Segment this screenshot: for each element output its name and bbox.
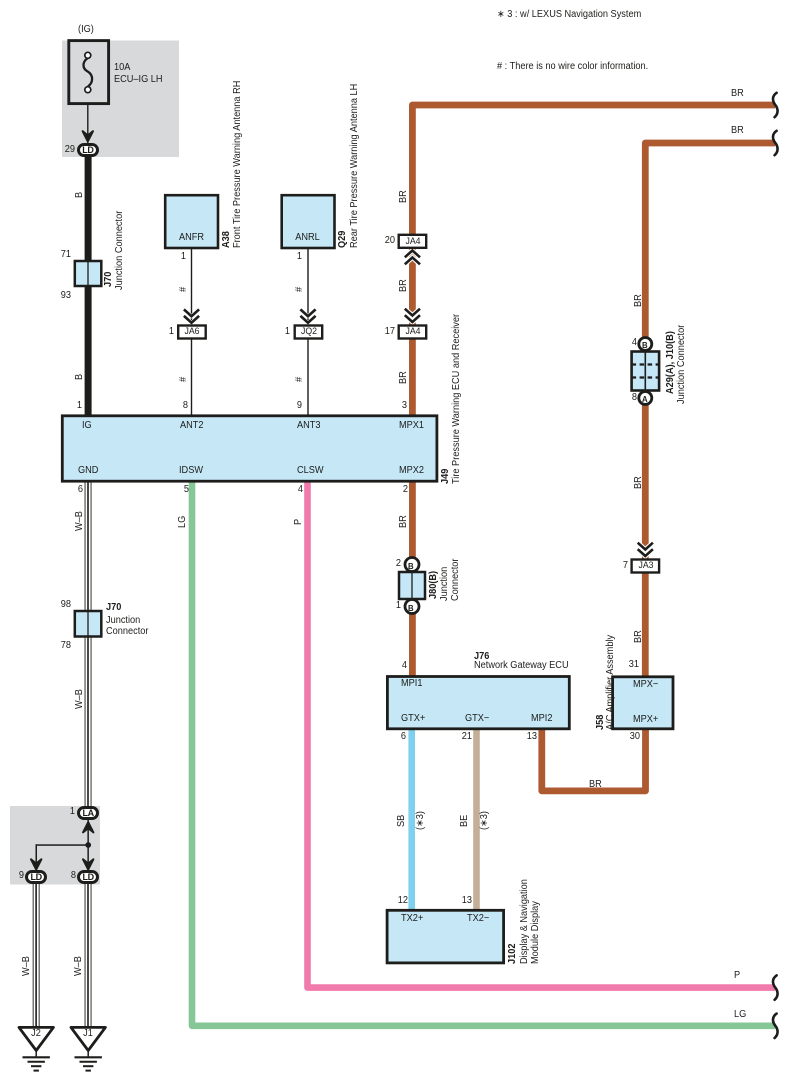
label A/C Amplifier Assembly (rotated) (606, 635, 616, 730)
pin 93 label (43, 291, 71, 301)
pin 1 label J80 bottom (373, 601, 401, 611)
pin 4 label A29 top (609, 338, 637, 348)
label J70 second (106, 603, 121, 613)
pin 2 label MPX2 (380, 485, 408, 495)
wire: BR from J49 MPX2 through J80(B) to J76 MPI1 (409, 480, 416, 676)
label GND (78, 466, 98, 476)
pin 6 label GND (55, 485, 83, 495)
wire: W-B from LD(9) to ground J2 (33, 882, 40, 1026)
break symbol on LG wire (773, 1014, 778, 1038)
node LD pin 9 (25, 870, 47, 884)
label MPI2 (531, 714, 552, 724)
label Connector (rotated) (451, 559, 461, 601)
label (IG) (78, 25, 94, 35)
label A38 (rotated) (222, 231, 232, 248)
label J49 (rotated) (441, 469, 451, 484)
wire label W-B ground left (22, 956, 32, 976)
pin circle B top of J80(B) (405, 558, 419, 572)
pin 9 label (0, 871, 24, 881)
wire label # lower right (295, 377, 305, 382)
wire: branch down to LD (9) (36, 844, 38, 870)
label TX2- (467, 914, 489, 924)
pin 9 label ANT3 (275, 401, 303, 411)
shaded region: ground distribution block (10, 806, 100, 885)
wire: SB from J76 GTX+ to J102 TX2+ (408, 729, 415, 911)
node LD pin 29 (77, 143, 99, 157)
wire: ANFR pin 1 to JA6 to J49 ANT2 (no color info) (191, 248, 192, 416)
connector box JA6 (178, 326, 206, 339)
pin 8 label A29 bottom (609, 393, 637, 403)
note: no wire color info (497, 62, 648, 72)
note: navigation option (497, 10, 641, 20)
label Display & Navigation (rotated) (520, 879, 530, 964)
wire: LG from J49 IDSW to off-page right (192, 481, 775, 1026)
wire label LG vertical (178, 516, 188, 528)
pin 1 label JQ2 (262, 327, 290, 337)
wire: W-B from J49 GND through J70 to LA (85, 481, 92, 807)
ground symbol J2 (19, 1027, 53, 1070)
component box J58 A/C Amplifier Assembly (613, 677, 673, 729)
component box ANFR A38 (165, 195, 218, 248)
pin 8 label (48, 871, 76, 881)
wire label W-B upper (75, 511, 85, 531)
label GTX- (465, 714, 489, 724)
wire label P vertical (294, 519, 304, 525)
chevron connector arrow above JA6 (184, 309, 199, 322)
component box J76 Network Gateway ECU (387, 677, 569, 729)
junction connector J80(B) box (399, 572, 425, 599)
wire: B (black) from LD to J49 pin 1 IG (85, 150, 92, 416)
pin 17 label (367, 327, 395, 337)
wire label BR top right 2 (731, 126, 744, 136)
pin 4 label CLSW (275, 485, 303, 495)
arrow down into LD(9) (31, 859, 41, 869)
pin 1 label IG (54, 401, 82, 411)
label GTX+ (401, 714, 425, 724)
pin 1 label below ANRL (274, 252, 302, 262)
label Junction (rotated) (440, 567, 450, 601)
label Rear Tire Pressure Warning Antenna LH (rotated) (350, 84, 360, 248)
letter A in bottom circle of A29/J10 (642, 394, 648, 404)
label TX2+ (401, 914, 423, 924)
wire: BR from off-page right down through A29/J10, JA3 to J58 MPX- (645, 143, 775, 676)
label JQ2 (296, 327, 322, 337)
label Junction second (106, 616, 140, 626)
wire: branch down to LD (8) (87, 844, 89, 870)
shaded region: ignition power source block (62, 41, 179, 158)
pin 31 label (611, 660, 639, 670)
wire label # upper left (179, 287, 189, 292)
break symbol on P wire (773, 975, 778, 999)
pin circle A bottom of A29/J10 (639, 392, 652, 405)
arrow down into LD(8) (83, 859, 93, 869)
label Module Display (rotated) (531, 901, 541, 964)
wire label W-B ground right (74, 956, 84, 976)
label JA3 (633, 561, 659, 571)
label IG (82, 421, 92, 431)
wire label BR above MPX1 (399, 371, 409, 384)
wire: W-B from LD(8) to ground J1 (85, 882, 92, 1026)
pin 6 label GTX+ (378, 732, 406, 742)
pin 3 label (380, 401, 408, 411)
wire label (*3) BE (rotated) (480, 811, 490, 830)
wire label (*3) SB (rotated) (416, 811, 426, 830)
label Junction Connector (rotated) (115, 211, 125, 290)
label MPX1 (399, 421, 424, 431)
component box J102 Display and Navigation Module Display (387, 910, 504, 963)
label IDSW (179, 466, 203, 476)
pin 13 label TX2- (445, 896, 473, 906)
wire label # lower left (179, 377, 189, 382)
wire label B lower (75, 374, 85, 380)
chevron connector arrow up below JA4(20) (405, 251, 420, 265)
label J2 in ground triangle (29, 1029, 44, 1039)
label J58 (rotated) (596, 715, 606, 730)
node LA pin 1 (77, 806, 99, 820)
pin 8 label ANT2 (160, 401, 188, 411)
wire: junction dot branch left (36, 844, 89, 846)
fuse box 10A ECU-IG LH (69, 41, 109, 104)
wire label BR top right 1 (731, 89, 744, 99)
chevron connector arrow down above JA3 (638, 543, 653, 556)
pin 12 label TX2+ (380, 896, 408, 906)
label J80(B) (rotated) (429, 571, 439, 599)
pin circle B top of A29/J10 (639, 338, 652, 351)
wire label # upper right (295, 287, 305, 292)
connector box JA4 pin 17 (399, 326, 427, 339)
label Tire Pressure Warning ECU and Receiver (rotated) (452, 314, 462, 484)
pin 21 label GTX- (444, 732, 472, 742)
pin 7 label JA3 (600, 561, 628, 571)
component box ANRL Q29 (282, 195, 335, 248)
label J102 (rotated) (508, 943, 518, 963)
pin 29 label (47, 145, 75, 155)
label Junction Connector right (rotated) (677, 325, 687, 404)
pin 98 label (43, 600, 71, 610)
wire: BR from J58 MPX+ to J76 MPI2 (542, 728, 646, 791)
pin 13 label MPI2 (509, 732, 537, 742)
pin 30 label (612, 732, 640, 742)
letter B in top circle of A29/J10 (642, 340, 648, 350)
label MPI1 (401, 679, 422, 689)
wire label BR horizontal low (589, 780, 602, 790)
connector box JA3 pin 7 (632, 560, 660, 573)
wire label BR above JA3 (634, 476, 644, 489)
wire: LA to junction dot (87, 818, 89, 846)
label J76 (474, 652, 489, 662)
junction connector J70 (98/78) (75, 611, 102, 637)
pin 4 label MPI1 (379, 661, 407, 671)
label J1 in ground triangle (81, 1029, 96, 1039)
label JA6 (179, 327, 205, 337)
label Connector second (106, 627, 148, 637)
label JA4 (20) (400, 237, 426, 247)
pin 1 label JA6 (146, 327, 174, 337)
label fuse 10A ECU-IG LH (114, 62, 163, 86)
junction dot (85, 842, 91, 848)
wire: ANRL pin 1 to JQ2 to J49 ANT3 (no color info) (307, 248, 308, 416)
wire label W-B lower (75, 689, 85, 709)
pin 1 label LA (47, 807, 75, 817)
pin 20 label (367, 236, 395, 246)
wire: P from J49 CLSW to off-page right (308, 481, 776, 988)
label Q29 (rotated) (338, 231, 348, 248)
wire label BR above JA4(20) (399, 190, 409, 203)
wire label BR below JA3 (634, 630, 644, 643)
ground symbol J1 (71, 1027, 105, 1070)
pin circle B bottom of J80(B) (405, 600, 419, 614)
label MPX+ (633, 715, 658, 725)
pin 5 label IDSW (161, 485, 189, 495)
break symbol on BR wire top right (773, 93, 778, 117)
break symbol on second BR wire (773, 131, 778, 155)
pin 71 label (43, 250, 71, 260)
wire: thin fuse lead from fuse to LD oval (87, 93, 88, 144)
chevron connector arrow down above JA4(17) (405, 309, 420, 322)
wire label SB (rotated) (397, 815, 407, 827)
wire label BR between JA4s (399, 279, 409, 292)
pin 2 label J80 top (373, 559, 401, 569)
label ANFR (167, 233, 216, 243)
letter B in bottom circle of J80 (408, 603, 414, 613)
label JA4 (17) (400, 327, 426, 337)
pin 1 label below ANFR (158, 252, 186, 262)
wire label BE (rotated) (460, 815, 470, 827)
label Network Gateway ECU (474, 661, 569, 671)
connector box JQ2 (295, 326, 323, 339)
wire: BE from J76 GTX- to J102 TX2- (473, 729, 480, 911)
label MPX2 (399, 466, 424, 476)
label A29(A), J10(B) (rotated) (666, 331, 676, 394)
pin 78 label (43, 641, 71, 651)
label ANRL (283, 233, 332, 243)
arrow up into LA (83, 822, 93, 832)
letter B in top circle of J80 (408, 561, 414, 571)
label ANT3 (297, 421, 321, 431)
label Front Tire Pressure Warning Antenna RH (rotated) (233, 81, 243, 248)
fuse element symbol (83, 52, 92, 92)
label J70 junction connector (rotated) (104, 272, 114, 287)
junction connector J70 (71/93) (75, 261, 102, 286)
junction connector A29(A),J10(B) box (632, 352, 660, 391)
connector box JA4 pin 20 (399, 235, 427, 248)
label CLSW (297, 466, 324, 476)
label MPX- (633, 680, 658, 690)
wire label BR right vertical upper (634, 294, 644, 307)
arrow into LD(29) (83, 131, 93, 141)
wire label P right end (734, 971, 740, 981)
node LD pin 8 (77, 870, 99, 884)
wire: BR from off-page right to JA4/JA4 to J49 MPX1 (412, 105, 775, 416)
chevron connector arrow above JQ2 (300, 309, 315, 322)
wire label B upper (75, 192, 85, 198)
component box J49 Tire Pressure Warning ECU and Receiver (62, 416, 437, 481)
wire label LG right end (734, 1010, 746, 1020)
label ANT2 (180, 421, 204, 431)
wire label BR below MPX2 (399, 515, 409, 528)
